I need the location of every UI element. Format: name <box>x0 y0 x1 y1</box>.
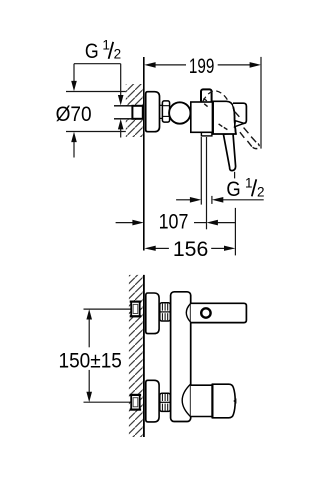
body bar <box>171 292 191 422</box>
G1/2 outlet dimension arrows <box>176 199 191 201</box>
dashed raised lever edge A <box>235 112 239 117</box>
svg-text:150±15: 150±15 <box>59 349 122 372</box>
wall line (top view) <box>143 57 145 251</box>
outlet section 1 <box>191 385 213 416</box>
O70 arrows <box>73 64 75 82</box>
G1/2 underline and leader <box>74 63 121 65</box>
concealed union square <box>132 106 142 119</box>
mixer body <box>191 102 213 132</box>
arm fillet arc <box>186 303 190 322</box>
dashed arc (lever travel) <box>203 91 228 101</box>
dash inside port <box>203 99 207 101</box>
lever arm (profile) <box>191 303 247 322</box>
top union square <box>131 302 140 317</box>
svg-text:199: 199 <box>189 55 214 78</box>
union nut <box>162 101 169 122</box>
199 extension line <box>260 57 262 149</box>
bottom nut <box>160 393 171 411</box>
dashed raised lever edge B <box>240 132 244 138</box>
dashed cap of raised lever <box>253 144 260 149</box>
top flange <box>146 293 159 334</box>
bottom outlet stub <box>201 128 212 136</box>
bottom union square <box>131 395 140 410</box>
G 1/2 label (top left) <box>85 38 121 63</box>
neck between flange and nut <box>160 104 163 106</box>
dashes near housing <box>219 124 223 127</box>
wall hatching (bottom view) <box>129 275 144 437</box>
wall line (bottom view) <box>143 275 145 437</box>
O70 extension lines <box>66 91 126 93</box>
hub wedge <box>235 121 244 127</box>
svg-text:G: G <box>226 178 240 201</box>
outlet cap <box>212 384 235 418</box>
ball joint <box>169 102 190 123</box>
lever hub <box>233 103 246 123</box>
outlet fillet arc <box>182 384 191 417</box>
top nut <box>160 303 171 321</box>
bottom flange <box>146 380 159 422</box>
svg-text:1: 1 <box>245 176 253 191</box>
svg-text:2: 2 <box>114 47 122 62</box>
hole in arm <box>201 308 210 317</box>
outlet face dot <box>233 398 236 404</box>
svg-text:1: 1 <box>102 38 110 53</box>
escutcheon flange <box>146 92 160 132</box>
svg-text:156: 156 <box>173 238 208 261</box>
lever grip (rest position) <box>223 133 235 170</box>
housing curve over hub <box>233 107 236 135</box>
cartridge housing <box>213 101 236 134</box>
wall hatching (top view) <box>126 84 144 137</box>
G 1/2 label (outlet) <box>226 176 264 201</box>
svg-text:G: G <box>85 40 99 63</box>
supply pipe behind wall <box>114 106 132 119</box>
outlet extension lines <box>200 137 202 205</box>
stopper extension line <box>234 208 236 256</box>
svg-text:Ø70: Ø70 <box>56 102 92 126</box>
dash below port <box>204 104 207 107</box>
leader from grip tip <box>234 172 236 179</box>
svg-text:107: 107 <box>159 210 189 233</box>
svg-text:2: 2 <box>257 184 265 199</box>
top outlet port <box>201 89 212 103</box>
